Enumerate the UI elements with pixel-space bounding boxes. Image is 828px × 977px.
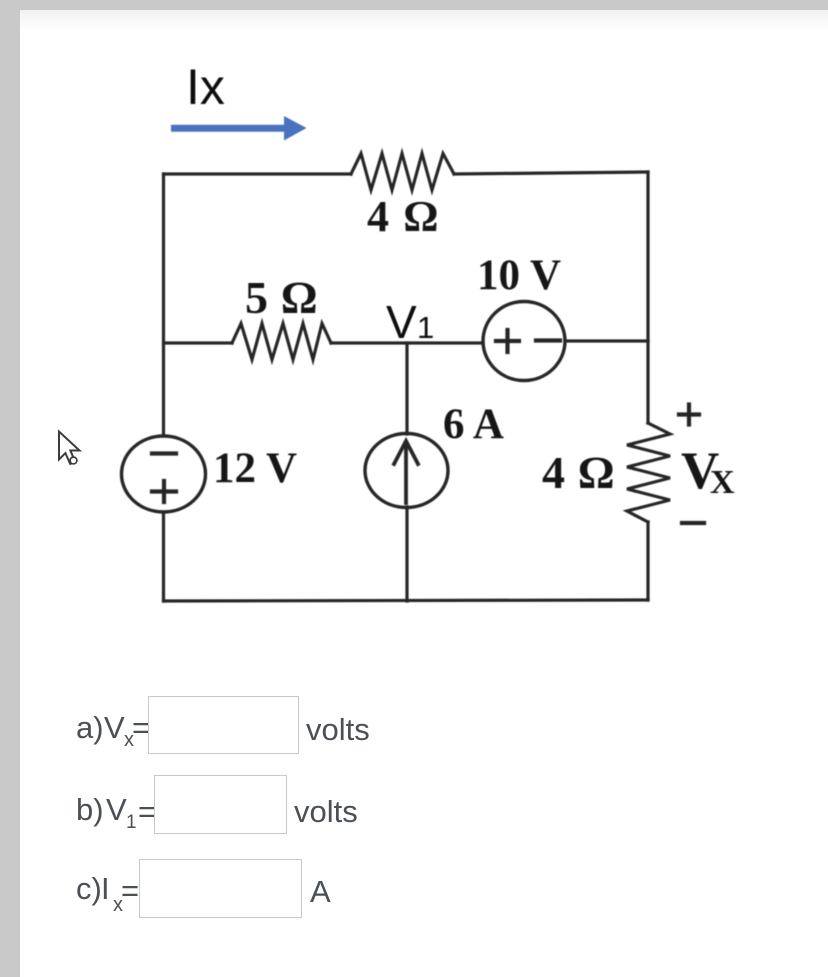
current source 6A circle (365, 434, 448, 508)
6A arrow (394, 441, 418, 503)
answer input box c (139, 859, 302, 918)
resistor 4 ohm right (vertical zigzag) (627, 423, 670, 522)
12V minus sign (152, 451, 176, 455)
resistor R top 4ohm zigzag (351, 154, 454, 191)
unit label A (c) (310, 874, 331, 910)
unit label volts (b) (294, 794, 358, 830)
soft shadow under top strip (20, 10, 828, 32)
answer row a (76, 710, 104, 746)
mouse cursor (59, 432, 80, 465)
middle vertical wire (V1 node down to 6A source) (405, 343, 408, 434)
svg-text:4 Ω: 4 Ω (542, 447, 615, 498)
10V minus sign (536, 338, 560, 342)
label 4 ohm (right resistor) (542, 447, 615, 498)
Vx minus sign (682, 521, 704, 525)
bottom wire (164, 600, 649, 601)
label 12 V (213, 445, 297, 492)
label 5 ohm (245, 272, 318, 323)
voltage source V 12V circle (122, 436, 206, 512)
middle wire: 5ohm to 10V source (331, 341, 483, 344)
current label Ix (186, 59, 225, 115)
12V plus sign (152, 481, 176, 502)
svg-text:1: 1 (417, 310, 434, 345)
Vx plus sign (679, 405, 699, 425)
right wire (top section) (646, 172, 649, 341)
voltage source 10V circle (483, 302, 565, 381)
node V1 label (386, 296, 434, 348)
svg-text:Ix: Ix (186, 59, 225, 115)
answer input box b (154, 775, 287, 834)
svg-text:10 V: 10 V (477, 252, 561, 299)
middle wire: left segment to 5 ohm (164, 341, 233, 344)
middle wire: 10V source to right wire (565, 339, 648, 342)
svg-text:4 Ω: 4 Ω (367, 192, 440, 241)
label 10 V (477, 252, 561, 299)
answer input box a (148, 696, 299, 754)
answer row c (76, 871, 102, 907)
right wire (middle to resistor) (646, 341, 649, 423)
10V plus sign (496, 330, 519, 352)
unit label volts (a) (306, 712, 370, 748)
left gray strip (0, 0, 20, 977)
middle vertical wire (6A source to bottom wire) (405, 507, 408, 601)
svg-text:5 Ω: 5 Ω (245, 272, 318, 323)
label 6 A (443, 401, 504, 448)
answer row b (76, 792, 104, 828)
resistor 5 ohm zigzag (232, 324, 331, 360)
label 4 ohm (top resistor) (367, 192, 440, 241)
current direction arrow (blue) (171, 116, 307, 141)
svg-text:V: V (386, 296, 417, 348)
top wire (right segment) (454, 172, 648, 174)
left wire (top section) (162, 174, 165, 436)
label Vx (681, 442, 735, 501)
svg-text:X: X (710, 464, 735, 501)
top gray strip (0, 0, 828, 10)
left wire (bottom section) (162, 512, 165, 601)
right wire (bottom section) (646, 522, 649, 600)
top wire (left segment) (164, 172, 352, 175)
svg-text:6 A: 6 A (443, 401, 504, 448)
svg-text:12 V: 12 V (213, 445, 297, 492)
